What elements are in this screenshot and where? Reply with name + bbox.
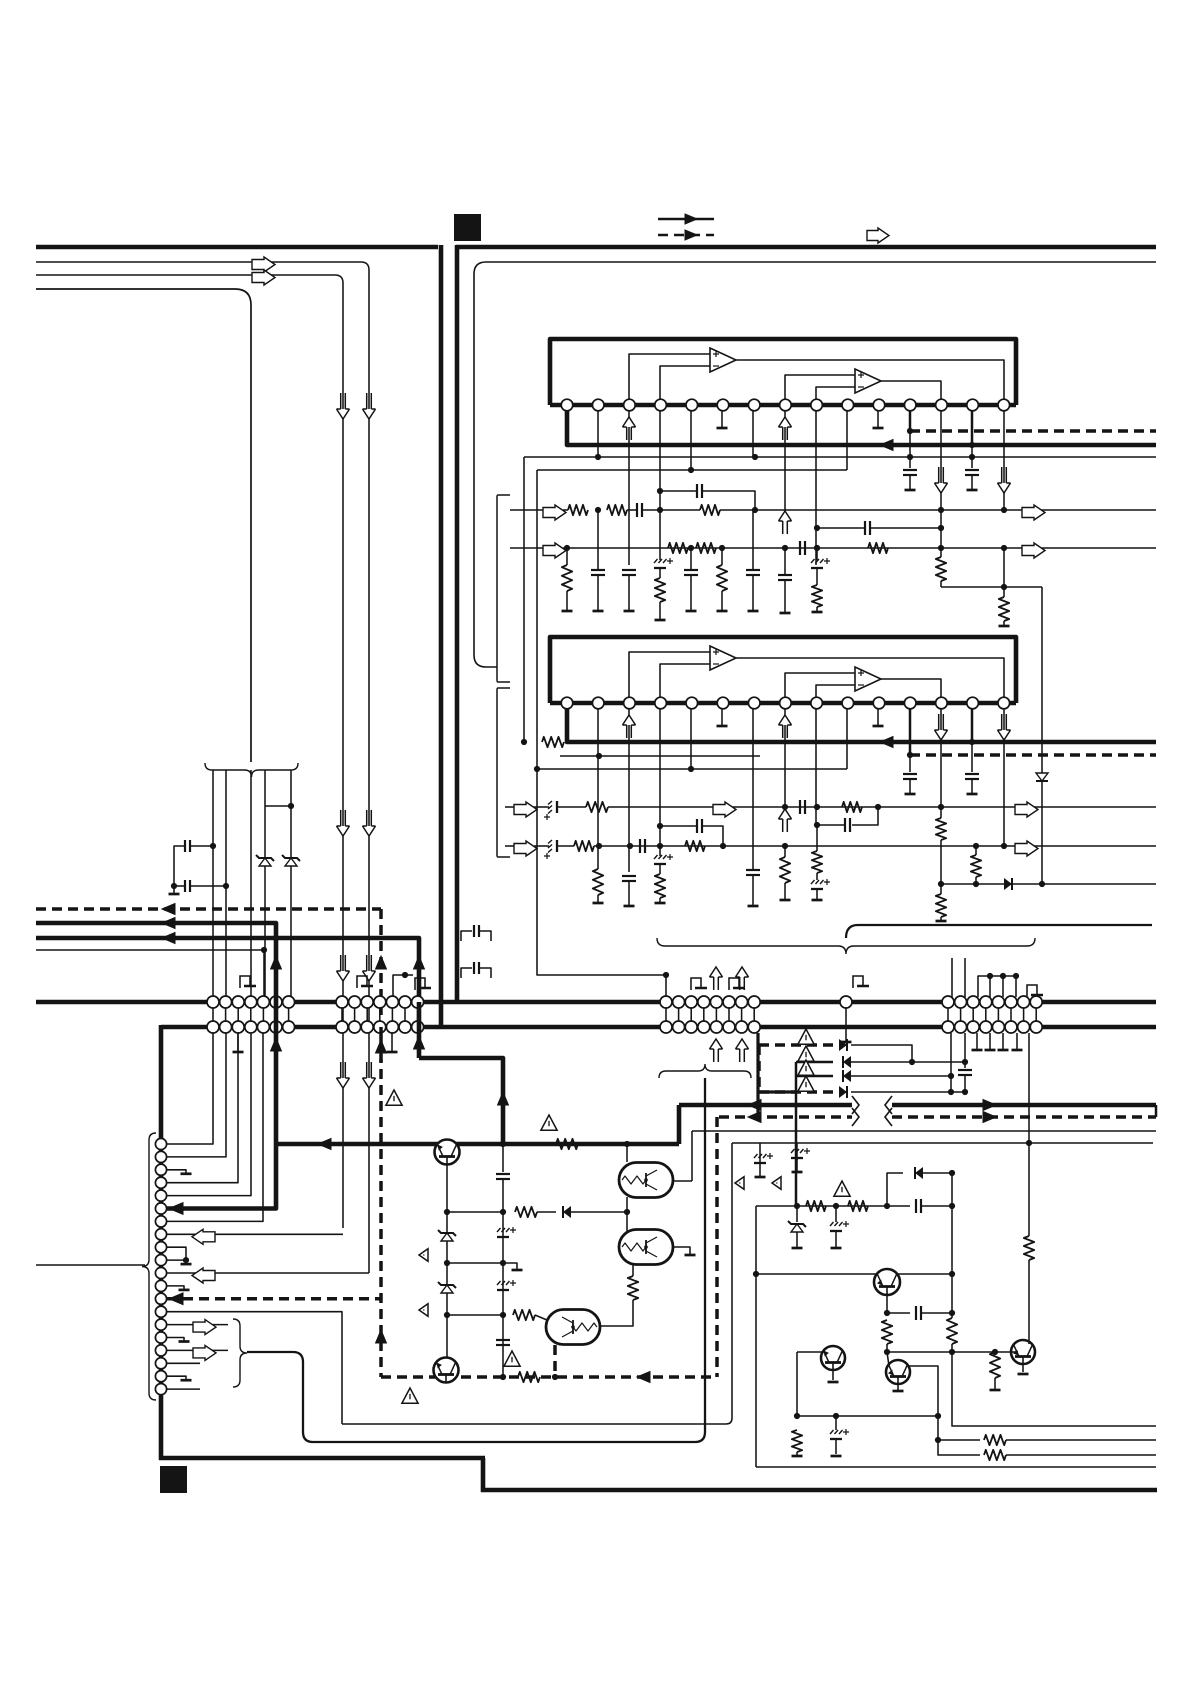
open up arrow below middle group x742 [740, 1049, 745, 1062]
capacitor lower left pair [191, 885, 226, 887]
connector bus row2 [161, 1025, 1156, 1030]
wire cap common lead [174, 846, 185, 894]
wire row3 to x951 [851, 1075, 951, 1077]
junction dot x555 dashed [552, 1374, 558, 1380]
junction dot x756 y1274 [753, 1271, 759, 1277]
junction dot row A x878 [875, 804, 881, 810]
open up arrow below middle group x717 [714, 1049, 719, 1062]
wire Q6 emitter ground [1022, 1364, 1024, 1372]
wire bottom border right section [481, 1488, 1157, 1493]
double down arrow on x343 upper [341, 393, 346, 409]
junction dot x226 cap [223, 883, 229, 889]
solid link diode row3 [796, 1075, 833, 1078]
wire op-amp A output [736, 360, 1004, 399]
resistor R in bus y1144 [556, 1139, 578, 1149]
junction dot bus x627 [624, 1141, 630, 1147]
wire op-amp B output [881, 679, 941, 697]
resistor R row A IC2 [586, 802, 608, 812]
warning triangle near Q1 [386, 1090, 402, 1105]
open arrow on y262 line [252, 257, 275, 272]
dashed bus y431 from IC1 pin12 [909, 411, 912, 431]
resistor R row A right [842, 802, 862, 812]
brace over right connector groups [657, 938, 1035, 954]
wire row C y884 [941, 883, 1156, 885]
open right arrow mid row A IC2 [713, 802, 736, 817]
diode D y1212 cathode left [537, 1211, 556, 1213]
electrolytic C + resistor hang x660 [654, 558, 673, 568]
wire Q4 emitter ground [832, 1370, 834, 1380]
transistor Q1 PNP [435, 1140, 460, 1165]
open left arrow line column pin11 [167, 1272, 369, 1274]
resistor R hang x941 [940, 510, 942, 557]
resistor R on dashed y1377 [518, 1372, 540, 1382]
wire vertical x756 [755, 1206, 757, 1467]
row y1274 to Q3 [756, 1273, 876, 1275]
wire link above group3 [978, 976, 1016, 997]
wire right block left border vertical [455, 245, 460, 1004]
resistor R x797 bottom [792, 1430, 802, 1452]
junction dot row A x1004 [1001, 507, 1007, 513]
legend solid signal line [658, 218, 714, 221]
open up arrow on x785 [783, 521, 788, 534]
wire column pin10 [167, 1259, 186, 1261]
thick arrow line into column pin6 [167, 1144, 276, 1209]
electrolytic C x836 bottom [835, 1416, 837, 1430]
open up arrow above middle group x742 [740, 977, 745, 990]
thick vertical x679 [677, 1105, 682, 1144]
wire column pin20 stub [167, 1388, 200, 1390]
wire op-amp B +input [785, 673, 855, 697]
wire DT2 emitter down [632, 1264, 634, 1276]
resistor R row B 2 [696, 543, 716, 553]
open right arrow row B right side IC2 [1015, 841, 1038, 856]
digital transistor DT2 [619, 1230, 673, 1265]
dashed link diode row1 [759, 1043, 833, 1047]
dashed vertical link rows [757, 1045, 761, 1092]
op-amp A [710, 646, 736, 670]
wire thin y950 [36, 949, 264, 951]
ground below IC1 pin6 [721, 411, 723, 428]
electrolytic C x760 [759, 1143, 761, 1152]
wire vertical x537 [536, 470, 538, 769]
wire op-amp B output [881, 381, 941, 399]
pointer line from brace to right edge [846, 925, 1152, 938]
capacitor C bridge row B IC2 [660, 825, 697, 827]
resistor R row B right [868, 543, 888, 553]
resistor R y1212 [515, 1207, 537, 1217]
wire IC1 pin5 down [690, 411, 692, 470]
electrolytic below y1206 [835, 1206, 837, 1222]
warning triangle row1 [798, 1029, 814, 1044]
brace under connector group2 [659, 1064, 751, 1078]
junction dot row B x941 [938, 545, 944, 551]
diode row1 cathode right [839, 1039, 847, 1051]
open right arrow row B right side [1022, 543, 1045, 558]
connector single pin [840, 996, 852, 1008]
junction dot row B x723 [720, 843, 726, 849]
wire harness x291 with jog [265, 770, 291, 806]
warning triangle right of bus [541, 1115, 557, 1130]
resistor R hang x1004 with ground [999, 597, 1009, 621]
half-ground above group2 x415 [405, 974, 413, 976]
filled up arrow on x381 lower [376, 1330, 387, 1343]
junction dot x503 on dashed [500, 1374, 506, 1380]
dashed bus y755 from IC2 pin12 [909, 709, 912, 755]
wire x291 lower [290, 806, 292, 997]
wire row1 to x912 [851, 1045, 912, 1062]
digital transistor DT3 [546, 1310, 600, 1345]
connector bus row1 [36, 1000, 1156, 1005]
warning triangle x842 [834, 1181, 850, 1196]
row y1352 [887, 1351, 1018, 1353]
thin box top y1143 [732, 1142, 1153, 1144]
capacitor with bent leads upper [461, 931, 472, 941]
wire left block right border vertical [439, 245, 444, 1029]
open right arrow row B IC2 [505, 845, 516, 847]
junction dot row C x1042 [1039, 881, 1045, 887]
wire below group3 x951 [950, 1033, 952, 1076]
ground below IC2 pin11 [877, 709, 879, 726]
thick vertical x276 through connector [274, 997, 279, 1144]
wire IC1 pin9 down [815, 411, 817, 565]
dashed arrow line into column pin13 [167, 1297, 381, 1301]
brace left of connector column [142, 1133, 156, 1400]
solid bus y1144 [276, 1142, 679, 1147]
resistor R row B 1 [668, 543, 688, 553]
wire signal line y262 [36, 262, 369, 1266]
junction dot row A x660 [657, 507, 663, 513]
capacitor C below x965 [958, 1070, 972, 1075]
wire IC2 pin5 down [690, 709, 692, 769]
resistor R hang x598 IC2 [597, 756, 599, 869]
electrolytic C series row B IC2 [534, 845, 549, 847]
filled left arrow on bus y742 [880, 737, 893, 748]
junction dot y769 [688, 766, 694, 772]
connector middle group row2 [660, 1021, 760, 1033]
resistor R row A 1 [563, 509, 568, 511]
wire row B [563, 547, 1156, 549]
thick wire IC2 pin1 to bus y742 [567, 709, 1156, 742]
wire Q6 base [1012, 1351, 1018, 1353]
legend dashed signal line [658, 234, 714, 237]
capacitor C bridge over row A [660, 490, 697, 492]
junction dot y1143 x1029 [1026, 1140, 1032, 1146]
dashed vertical x717 [715, 1117, 719, 1377]
capacitor C y1313 [887, 1312, 910, 1314]
row link y1212 [447, 1211, 503, 1213]
thin bus y1131 [692, 1130, 1156, 1132]
wire x952 vertical upper [951, 1173, 953, 1318]
junction dot row B x630 [627, 843, 633, 849]
wire IC2 pin9 down [815, 709, 817, 823]
resistor R hang x785 IC2 [784, 848, 786, 857]
row link y1263 [447, 1262, 503, 1264]
open right arrow line column pin17 [167, 1349, 228, 1351]
junction dot x887 y1352 [884, 1349, 890, 1355]
wire IC2 pin8 long down [784, 738, 786, 807]
connector group1 row2 [207, 1021, 295, 1033]
wire IC1 pin13 down [940, 411, 942, 510]
junction dot row A x817 [814, 804, 820, 810]
open right arrow row A right side IC2 [1015, 802, 1038, 817]
connector middle group row1 [660, 996, 760, 1008]
resistor R row B IC2 mid [685, 841, 705, 851]
zener diode on x291 [282, 855, 300, 866]
legend solid-line arrow [685, 214, 697, 224]
wire IC1 pin3 long down [628, 440, 630, 565]
dashed bus y909 with left arrow [36, 907, 381, 911]
resistor R y1315 [513, 1310, 535, 1320]
wire row2 to x965 [851, 1061, 965, 1063]
open right arrow row A right side [1022, 505, 1045, 520]
diode right row C [1004, 878, 1012, 890]
wire op-amp A -input [660, 664, 710, 697]
ground stub column pin19 [167, 1376, 186, 1380]
wire jog above group2 [393, 975, 405, 997]
capacitor C hang x629 [622, 570, 636, 575]
op-amp A [710, 348, 736, 372]
wire op-amp B -input [816, 387, 855, 399]
junction dot row A x755 [752, 507, 758, 513]
junction dot row B x722 [719, 545, 725, 551]
open up arrow below IC2 pin8 [784, 709, 786, 738]
wire x692 down to DT1 out [691, 1131, 693, 1181]
wire Q4 base from x797 [796, 1352, 798, 1416]
wire DT1 output up to y1131 [672, 1180, 692, 1182]
junction dot row A x941 [938, 804, 944, 810]
wire y587 link [940, 581, 942, 587]
wire Q5 collector to row y1416 [907, 1366, 938, 1416]
capacitor C on x503 [502, 1144, 504, 1172]
ground below pin9 jog [181, 1263, 192, 1266]
wire harness pointer to left brace [36, 289, 251, 762]
connector column pins [155, 1138, 166, 1394]
capacitor C hang x785 [784, 548, 786, 575]
half-ground above middle group pin3 [691, 978, 707, 990]
capacitor C bridge row B [814, 525, 820, 531]
wire x447 down chain [446, 1164, 448, 1360]
open up arrow below IC1 pin8 [784, 411, 786, 440]
legend dashed-line arrow [685, 230, 697, 240]
wire thin y470 [537, 469, 847, 471]
ground below group2 pin5 [391, 1033, 393, 1052]
wire op-amp A -input [660, 366, 710, 399]
wire thin y769 [537, 768, 847, 770]
capacitor C hang x691 [690, 548, 692, 570]
digital transistor DT1 [626, 1144, 628, 1162]
fan wires from column to group1 row2 [167, 1033, 263, 1221]
connector group1 row1 [207, 996, 295, 1008]
wire top border bus right section [456, 245, 1156, 250]
solid link diode row2 [796, 1061, 833, 1064]
wire vertical x1042 down [1041, 587, 1043, 884]
transistor Q2 PNP [434, 1358, 459, 1383]
diode down on x1042 [1036, 773, 1048, 781]
wire x264 to connector [263, 950, 265, 997]
wire thin y1265 to column brace [36, 1264, 145, 1266]
ground below cap pair [169, 893, 180, 896]
resistor R below DT2 [628, 1276, 638, 1300]
ground below IC2 pin6 [721, 709, 723, 726]
op-amp B [855, 667, 881, 691]
wire column pin9 jog [167, 1247, 186, 1264]
capacitor C hang x629 IC2 [622, 876, 636, 881]
wire op-amp A +input [629, 354, 710, 399]
dashed bus vertical x381 [379, 909, 383, 1377]
resistor R row B IC2 [574, 841, 594, 851]
resistor R left of IC2 pin1 [521, 739, 527, 745]
junction dot row B x1004 [1001, 843, 1007, 849]
open right arrow row A IC1 [510, 509, 545, 511]
double down arrow on x343 lower [341, 955, 346, 971]
capacitor C y1206 right [887, 1205, 910, 1207]
junction dot row B x785 [782, 545, 788, 551]
junction dot y756 [596, 753, 602, 759]
op-amp B [855, 369, 881, 393]
warning triangle below cap x503 [504, 1351, 520, 1366]
brackets left of IC rows [497, 495, 510, 682]
routed pointer from group2 brace to bottom box [247, 1078, 705, 1442]
thin box left and bottom [342, 1143, 732, 1424]
double down arrow on x369 upper [367, 393, 372, 409]
wire op-amp B -input [816, 685, 855, 697]
thick stub x758 [756, 1033, 759, 1117]
resistor R x941 between rows [936, 818, 946, 840]
capacitor upper left pair [191, 845, 213, 847]
junction dot y470 [688, 467, 694, 473]
line y1440 with resistor [938, 1439, 980, 1441]
resistor R row A 3 [660, 509, 700, 511]
half-ground above group3 [1027, 985, 1043, 997]
half-ground above group2 x357 [357, 976, 373, 988]
double down arrow on x343 middle [341, 810, 346, 826]
junction dot cap common [171, 883, 177, 889]
wire IC2 pin2 down [597, 709, 599, 756]
junction dot above group2 [402, 972, 408, 978]
zener diode below y1206 [796, 1206, 798, 1222]
ground below IC1 pin11 [877, 411, 879, 428]
wire Q3 emitter down [886, 1293, 888, 1313]
wire x938 down to y1440 [937, 1416, 939, 1440]
half-ground above middle group pin6 [729, 978, 745, 990]
open arrow on y275 line [252, 270, 275, 285]
diode D up branch y1173 [884, 1203, 890, 1209]
diode row2 cathode left [843, 1056, 851, 1068]
legend open arrow [867, 228, 889, 243]
board marker square top [454, 214, 481, 241]
junction dots above group3 [987, 973, 993, 979]
wire below group3 x1029 [1028, 1033, 1030, 1143]
wire bottom border step [481, 1458, 486, 1492]
warning triangle below Q2 [402, 1388, 418, 1403]
brace over left wire group [205, 763, 298, 777]
double down arrow on IC2 pin15 wire [1002, 714, 1007, 730]
IC pins [561, 399, 1009, 411]
half-ground above group1 [240, 976, 256, 988]
warning triangle row4 [798, 1076, 814, 1091]
zener diode ZD2 on x447 [438, 1282, 456, 1293]
capacitor C hang x752 IC2 [752, 709, 754, 756]
capacitor C series row B IC2 x642 [640, 839, 645, 853]
wire DT2 output to ground [672, 1247, 690, 1255]
resistor R hang x1004 upper [1003, 548, 1005, 597]
wire harness x226 [225, 770, 227, 997]
ground stub column pin16 [167, 1338, 184, 1342]
open left arrow line column pin8 [167, 1233, 343, 1235]
filled up arrow x503 [498, 1092, 509, 1105]
wire Q6 collector up [1028, 1143, 1030, 1236]
thick jog to x503 [419, 1058, 503, 1146]
junction dot row A x785 [782, 804, 788, 810]
resistor R row A 2 [607, 505, 627, 515]
electrolytic C + resistor hang x660 IC2 [654, 854, 673, 864]
double down arrow on IC1 pin13 wire [939, 467, 944, 483]
IC pins [561, 697, 1009, 709]
transistor Q3 NPN [874, 1269, 900, 1295]
dashed bottom y1377 early segment [381, 1375, 717, 1379]
ground stubs below group3 [972, 1033, 1023, 1050]
transistor Q4 PNP [797, 1351, 824, 1353]
junction dot bus x503 [500, 1141, 506, 1147]
wire IC1 pin2 down [597, 411, 599, 457]
wire IC1 pin7 down [752, 411, 754, 457]
solid bus y938 left arrow [36, 938, 419, 1002]
transistor Q6 NPN right [1011, 1340, 1035, 1364]
left mark triangle x776 [772, 1177, 781, 1190]
electrolytic C x503 upper [497, 1227, 516, 1237]
wire y1212 to x627 [571, 1211, 627, 1213]
electrolytic C x503 lower [497, 1280, 516, 1290]
wire harness x251 [250, 770, 252, 997]
row y1206 [756, 1205, 887, 1207]
wire IC1 pin10 down [846, 411, 848, 470]
filled up arrow on x381 upper [376, 956, 387, 969]
capacitor C row A x802 [800, 800, 805, 814]
electrolytic C + resistor hang x817 [814, 545, 820, 551]
junction dot row B x599 [596, 843, 602, 849]
junction dot row B x976 [973, 843, 979, 849]
wire row4 to x965 [851, 1091, 965, 1093]
wire Q5 base [887, 1352, 889, 1366]
diode row4 cathode right [839, 1086, 847, 1098]
row y1416 [797, 1415, 938, 1417]
dashed x381 between rows [379, 1027, 383, 1062]
solid bus y1105 with arrows and break [679, 1103, 852, 1108]
inter-row pin link wires [213, 1002, 1036, 1027]
resistor R x995 [990, 1352, 1000, 1378]
resistor R x952 below [947, 1318, 957, 1344]
thick wire IC2 pin14 to bus [971, 709, 974, 742]
capacitor with ground below IC1 pin12 [907, 454, 913, 460]
double down arrow on x369 lower [367, 955, 372, 971]
dashed stub DT3 emitter [553, 1345, 557, 1377]
resistor R between rows x976 [975, 846, 977, 855]
electrolytic C series row A IC2 [534, 806, 549, 808]
wire IC2 pin10 down [846, 709, 848, 769]
wire Q3 collector to x952 [896, 1273, 952, 1275]
line y1467 bottom [756, 1466, 1156, 1468]
open up arrow on x785 IC2 [783, 819, 788, 832]
link verticals right ends of buses [1155, 1105, 1158, 1117]
resistor R hang x941 IC2 with ground [940, 884, 942, 894]
double down arrow on x343 below connector [341, 1062, 346, 1078]
wire IC2 pin3 long down [628, 738, 630, 872]
junction dot y1206 x797 [794, 1203, 800, 1209]
wire op-amp A output [736, 658, 1004, 697]
wire harness x213 [212, 770, 214, 997]
capacitor C hang x598 [597, 510, 599, 570]
zener diode on x265 [256, 855, 274, 866]
